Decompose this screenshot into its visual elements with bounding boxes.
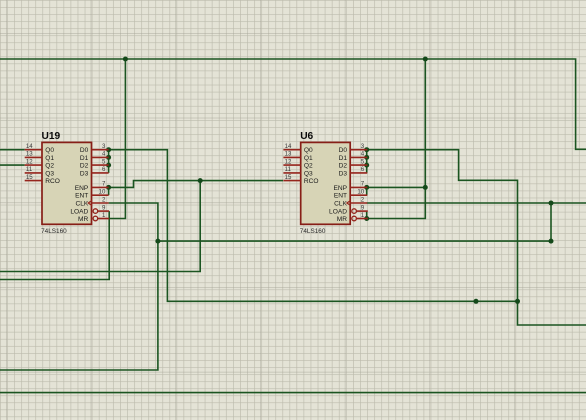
svg-text:LOAD: LOAD bbox=[329, 209, 347, 216]
U6 pin 15 (RCO) left stub bbox=[283, 174, 318, 185]
svg-text:D3: D3 bbox=[339, 170, 348, 177]
wire U19 D bus to bottom rail bbox=[109, 150, 518, 302]
svg-text:MR: MR bbox=[337, 216, 347, 223]
U19 pin 4 (D1) right stub bbox=[80, 151, 109, 162]
svg-text:D0: D0 bbox=[80, 147, 89, 154]
U19 pin 13 (Q1) left stub bbox=[25, 151, 55, 162]
U19 pin 5 (D2) right stub bbox=[80, 158, 109, 169]
svg-text:ENT: ENT bbox=[334, 193, 347, 200]
U19 pin 12 (Q2) left stub bbox=[25, 158, 55, 169]
U6 pin 13 (Q1) left stub bbox=[283, 151, 313, 162]
U6 pin 14 (Q0) left stub bbox=[283, 143, 313, 154]
wire U6 ENP-ENT tie bbox=[366, 187, 368, 195]
wire CLK link rail bbox=[158, 240, 551, 242]
svg-text:ENT: ENT bbox=[75, 193, 88, 200]
wire bottom horizontal rail bbox=[0, 392, 586, 394]
U19 pin 6 (D3) right stub bbox=[80, 166, 109, 177]
U6 pin 10 (ENT) right stub bbox=[334, 189, 367, 200]
wire U19 D0-D3 tie bbox=[108, 150, 110, 173]
junction D rail / U6 D bus bbox=[515, 299, 520, 304]
IC U19 74LS160 body bbox=[42, 142, 92, 224]
junction U19 ENP bbox=[106, 185, 111, 190]
svg-text:Q3: Q3 bbox=[304, 170, 313, 177]
wire U19 Q0 input from left edge bbox=[0, 149, 25, 151]
junction stray junction bbox=[474, 299, 479, 304]
U19 pin 9 (LOAD) right stub bbox=[70, 204, 109, 215]
svg-text:Q2: Q2 bbox=[304, 163, 313, 170]
svg-text:10: 10 bbox=[357, 189, 364, 196]
junction U6 D1 bbox=[364, 155, 369, 160]
svg-text:Q3: Q3 bbox=[45, 170, 54, 177]
U19 pin 7 (ENP) right stub bbox=[75, 181, 109, 192]
wire U19 CLK to left edge bbox=[0, 203, 158, 370]
U6 pin 2 (CLK) right stub bbox=[334, 196, 367, 207]
wire U6 ENP to net-A bbox=[367, 186, 426, 188]
junction net-A / U6 MR drop bbox=[423, 57, 428, 62]
wire U6 D0-D3 tie bbox=[366, 150, 368, 173]
svg-text:D1: D1 bbox=[80, 155, 89, 162]
U6 pin 9 (LOAD) right stub bbox=[329, 204, 368, 215]
wire RCO net branch to left edge bbox=[0, 181, 200, 272]
svg-text:11: 11 bbox=[285, 166, 292, 173]
svg-text:10: 10 bbox=[99, 189, 106, 196]
junction RCO net T bbox=[198, 178, 203, 183]
U19 pin 11 (Q3) left stub bbox=[25, 166, 55, 177]
svg-text:13: 13 bbox=[26, 151, 33, 158]
junction U19 D1 bbox=[106, 155, 111, 160]
wire U19 LOAD to left edge bbox=[0, 211, 109, 279]
svg-text:13: 13 bbox=[285, 151, 292, 158]
svg-text:12: 12 bbox=[26, 158, 33, 165]
U6 pin 6 (D3) right stub bbox=[339, 166, 368, 177]
U19 pin 15 (RCO) left stub bbox=[25, 174, 60, 185]
svg-text:14: 14 bbox=[285, 143, 292, 150]
svg-text:MR: MR bbox=[78, 216, 88, 223]
junction CLK net T bbox=[155, 239, 160, 244]
svg-text:74LS160: 74LS160 bbox=[300, 228, 326, 235]
U19 pin 1 (MR) right stub bbox=[78, 212, 109, 223]
U6 pin 1 (MR) right stub bbox=[337, 212, 368, 223]
junction U6 ENP net-A bbox=[423, 185, 428, 190]
svg-text:Q1: Q1 bbox=[45, 155, 54, 162]
junction U19 D2 bbox=[106, 163, 111, 168]
svg-text:12: 12 bbox=[285, 158, 292, 165]
wire U19 ENP-ENT tie bbox=[108, 187, 110, 195]
svg-text:RCO: RCO bbox=[45, 178, 60, 185]
U19 pin 3 (D0) right stub bbox=[80, 143, 109, 154]
wire U6 D bus to right edge bbox=[367, 150, 586, 325]
junction U6 D0 bbox=[364, 147, 369, 152]
wire net-A drop to U6 MR bbox=[367, 59, 425, 219]
svg-text:D0: D0 bbox=[339, 147, 348, 154]
svg-text:D3: D3 bbox=[80, 170, 89, 177]
junction U6 ENP bbox=[364, 185, 369, 190]
svg-text:CLK: CLK bbox=[75, 201, 88, 208]
junction CLK link bottom bbox=[549, 239, 554, 244]
U6 pin 4 (D1) right stub bbox=[339, 151, 368, 162]
wire U6 CLK to right edge bbox=[367, 202, 586, 204]
svg-text:Q2: Q2 bbox=[45, 163, 54, 170]
junction CLK link top bbox=[549, 201, 554, 206]
wire net-A top horizontal bbox=[0, 59, 586, 149]
svg-text:ENP: ENP bbox=[333, 185, 347, 192]
wire U19 Q2 input from left edge bbox=[0, 164, 25, 166]
IC U6 74LS160 body bbox=[301, 142, 351, 224]
U6 pin 7 (ENP) right stub bbox=[333, 181, 367, 192]
U19 pin 14 (Q0) left stub bbox=[25, 143, 55, 154]
wire CLK link riser bbox=[550, 203, 552, 241]
junction net-A / U19 MR drop bbox=[123, 57, 128, 62]
svg-text:Q1: Q1 bbox=[304, 155, 313, 162]
junction U19 D0 bbox=[106, 147, 111, 152]
svg-text:11: 11 bbox=[26, 166, 33, 173]
svg-text:D2: D2 bbox=[80, 163, 89, 170]
svg-text:U6: U6 bbox=[300, 131, 313, 142]
junction U6 D2 bbox=[364, 163, 369, 168]
svg-text:14: 14 bbox=[26, 143, 33, 150]
svg-text:15: 15 bbox=[285, 174, 292, 181]
junction U6 MR bbox=[364, 216, 369, 221]
U6 pin 11 (Q3) left stub bbox=[283, 166, 313, 177]
U19 pin 10 (ENT) right stub bbox=[75, 189, 108, 200]
U6 pin 12 (Q2) left stub bbox=[283, 158, 313, 169]
svg-text:D2: D2 bbox=[339, 163, 348, 170]
U6 pin 3 (D0) right stub bbox=[339, 143, 368, 154]
U19 pin 2 (CLK) right stub bbox=[75, 196, 108, 207]
svg-text:CLK: CLK bbox=[334, 201, 347, 208]
U6 pin 5 (D2) right stub bbox=[339, 158, 368, 169]
wire net-A drop to U19 MR bbox=[109, 59, 125, 219]
svg-text:Q0: Q0 bbox=[304, 147, 313, 154]
svg-text:LOAD: LOAD bbox=[70, 209, 88, 216]
wire U19 ENP to U6 RCO bbox=[109, 181, 284, 188]
svg-text:Q0: Q0 bbox=[45, 147, 54, 154]
svg-text:D1: D1 bbox=[339, 155, 348, 162]
svg-text:74LS160: 74LS160 bbox=[41, 228, 67, 235]
svg-text:U19: U19 bbox=[42, 131, 61, 142]
svg-text:15: 15 bbox=[26, 174, 33, 181]
svg-text:ENP: ENP bbox=[75, 185, 89, 192]
wire U6 LOAD-MR tie bbox=[366, 211, 368, 218]
svg-text:RCO: RCO bbox=[304, 178, 319, 185]
